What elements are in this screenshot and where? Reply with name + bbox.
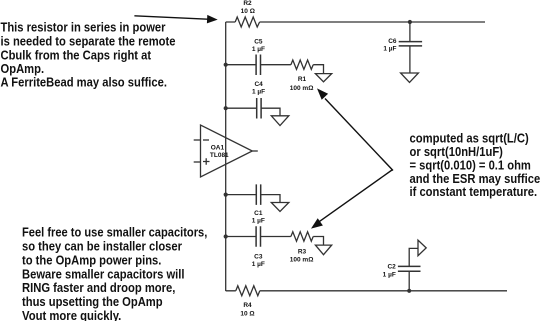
wire bbox=[313, 237, 323, 246]
svg-text:C5: C5 bbox=[254, 39, 263, 46]
svg-text:R2: R2 bbox=[243, 0, 252, 7]
wire bbox=[261, 108, 280, 116]
svg-text:R4: R4 bbox=[243, 302, 252, 309]
wire top rail bbox=[226, 21, 485, 23]
svg-text:so they can be installer close: so they can be installer closer bbox=[22, 239, 182, 254]
annotation text top-left bbox=[1, 19, 176, 89]
capacitor C3 bbox=[226, 226, 265, 268]
capacitor C1 bbox=[226, 184, 265, 224]
svg-text:1 µF: 1 µF bbox=[383, 272, 396, 279]
wire bbox=[261, 195, 280, 203]
svg-text:RING faster and droop more,: RING faster and droop more, bbox=[22, 280, 175, 295]
svg-text:is needed to separate the remo: is needed to separate the remote bbox=[1, 33, 176, 48]
resistor R4 bbox=[236, 286, 260, 318]
junction node row C5 bbox=[224, 63, 228, 67]
capacitor C4 bbox=[226, 81, 265, 119]
svg-text:C4: C4 bbox=[254, 81, 263, 88]
capacitor C2 bbox=[383, 248, 421, 290]
resistor R2 bbox=[235, 0, 259, 27]
svg-text:to the OpAmp power pins.: to the OpAmp power pins. bbox=[22, 252, 161, 267]
svg-text:1 µF: 1 µF bbox=[252, 261, 265, 268]
svg-text:OA1: OA1 bbox=[211, 145, 225, 152]
svg-text:C6: C6 bbox=[388, 38, 397, 45]
svg-text:Feel free to use smaller capac: Feel free to use smaller capacitors, bbox=[22, 225, 207, 240]
svg-text:100 mΩ: 100 mΩ bbox=[290, 257, 314, 264]
junction node row C1 bbox=[224, 193, 228, 197]
annotation arrow to R2 bbox=[134, 15, 217, 24]
svg-text:if constant temperature.: if constant temperature. bbox=[410, 184, 538, 199]
wire bottom rail bbox=[226, 290, 507, 292]
svg-text:thus upsetting the OpAmp: thus upsetting the OpAmp bbox=[22, 294, 163, 309]
ground bbox=[401, 73, 419, 82]
svg-text:Vout more quickly.: Vout more quickly. bbox=[22, 308, 121, 321]
svg-text:100 mΩ: 100 mΩ bbox=[290, 85, 314, 92]
svg-text:R3: R3 bbox=[298, 249, 307, 256]
svg-text:1 µF: 1 µF bbox=[383, 46, 396, 53]
wire left vertical bus bbox=[225, 22, 227, 291]
svg-text:C2: C2 bbox=[387, 264, 396, 271]
annotation text right bbox=[410, 131, 540, 199]
svg-text:10 Ω: 10 Ω bbox=[241, 8, 255, 15]
junction node bottom C2 bbox=[407, 289, 411, 293]
annotation arrow to R3 bbox=[311, 170, 392, 229]
ground bbox=[315, 74, 331, 82]
svg-text:C3: C3 bbox=[254, 253, 263, 260]
capacitor C5 bbox=[226, 39, 265, 76]
power flag bbox=[418, 240, 426, 256]
svg-text:Beware smaller capacitors will: Beware smaller capacitors will bbox=[22, 266, 185, 281]
svg-text:10 Ω: 10 Ω bbox=[240, 310, 254, 317]
ground bbox=[315, 245, 331, 255]
annotation arrow to R1 bbox=[317, 88, 393, 170]
junction node row C4 bbox=[224, 106, 228, 110]
svg-text:1 µF: 1 µF bbox=[252, 218, 265, 225]
resistor R1 bbox=[260, 60, 313, 92]
ground bbox=[271, 203, 289, 212]
annotation text bottom-left bbox=[22, 225, 207, 321]
svg-text:TL081: TL081 bbox=[210, 152, 229, 159]
capacitor C6 bbox=[383, 22, 422, 73]
svg-text:C1: C1 bbox=[254, 210, 263, 217]
op-amp OA1 TL081 bbox=[194, 125, 258, 177]
svg-text:1 µF: 1 µF bbox=[252, 46, 265, 53]
ground bbox=[271, 116, 289, 126]
svg-text:A FerriteBead may also suffice: A FerriteBead may also suffice. bbox=[1, 74, 168, 89]
wire bbox=[313, 65, 323, 74]
resistor R3 bbox=[260, 232, 313, 264]
svg-text:R1: R1 bbox=[298, 76, 307, 83]
junction node row C3 bbox=[224, 234, 228, 238]
svg-text:1 µF: 1 µF bbox=[252, 89, 265, 96]
svg-text:This resistor in series in pow: This resistor in series in power bbox=[1, 19, 166, 34]
junction node top C6 bbox=[408, 20, 412, 24]
